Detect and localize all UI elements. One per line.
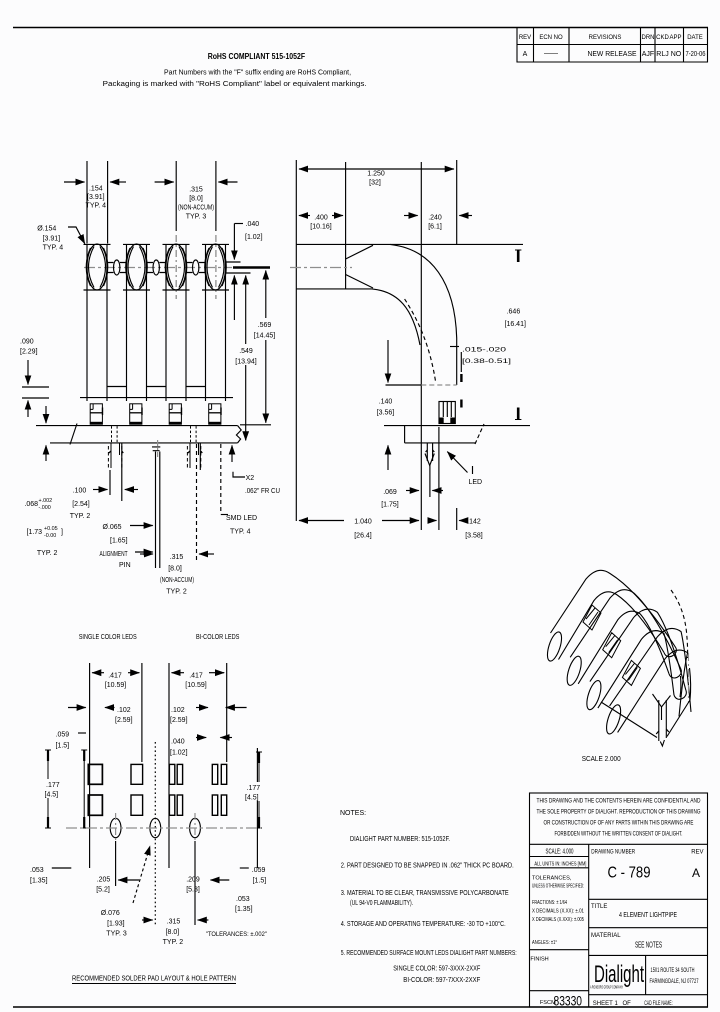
- svg-text:X2: X2: [246, 475, 255, 482]
- svg-text:SINGLE COLOR LEDS: SINGLE COLOR LEDS: [79, 634, 137, 641]
- svg-text:SHEET: SHEET: [593, 1001, 613, 1007]
- svg-text:Ø.076: Ø.076: [101, 910, 120, 917]
- svg-text:FRACTIONS: ± 1/64: FRACTIONS: ± 1/64: [532, 900, 567, 906]
- svg-text:1501 ROUTE 34 SOUTH: 1501 ROUTE 34 SOUTH: [651, 968, 695, 974]
- svg-text:-.000: -.000: [39, 505, 51, 511]
- svg-text:4 ELEMENT LIGHTPIPE: 4 ELEMENT LIGHTPIPE: [619, 912, 677, 919]
- svg-text:1.040: 1.040: [354, 519, 372, 526]
- svg-text:[1.73: [1.73: [27, 529, 43, 536]
- svg-text:[2.54]: [2.54]: [72, 501, 90, 508]
- svg-text:[1.65]: [1.65]: [110, 538, 128, 545]
- svg-text:[5.2]: [5.2]: [96, 887, 110, 894]
- svg-text:SCALE 2.000: SCALE 2.000: [582, 756, 621, 763]
- svg-text:FINISH: FINISH: [530, 957, 548, 963]
- svg-text:RLJ: RLJ: [656, 51, 668, 58]
- svg-text:TITLE: TITLE: [591, 904, 607, 910]
- svg-text:BI-COLOR LEDS: BI-COLOR LEDS: [196, 634, 240, 641]
- svg-text:[3.56]: [3.56]: [377, 410, 395, 417]
- svg-text:THE SOLE PROPERTY OF DIALIGHT.: THE SOLE PROPERTY OF DIALIGHT. REPRODUCT…: [537, 810, 701, 816]
- svg-text:TYP. 4: TYP. 4: [230, 529, 251, 536]
- svg-text:2. PART DESIGNED TO BE SNAPPED: 2. PART DESIGNED TO BE SNAPPED IN .062" …: [341, 863, 514, 870]
- svg-text:SCALE: 4.000: SCALE: 4.000: [546, 849, 574, 856]
- svg-text:TYP. 2: TYP. 2: [166, 589, 187, 596]
- svg-text:Ø.154: Ø.154: [37, 226, 56, 233]
- svg-text:[13.94]: [13.94]: [235, 359, 256, 366]
- svg-text:.053: .053: [30, 867, 44, 874]
- svg-text:FORBIDDEN WITHOUT THE WRITTEN: FORBIDDEN WITHOUT THE WRITTEN CONSENT OF…: [555, 832, 683, 838]
- svg-text:[1.02]: [1.02]: [170, 750, 188, 757]
- svg-text:5. RECOMMENDED SURFACE MOUNT L: 5. RECOMMENDED SURFACE MOUNT LEDS DIALIG…: [341, 950, 517, 957]
- svg-text:TYP. 3: TYP. 3: [186, 214, 207, 221]
- svg-text:"TOLERANCES: ±.002": "TOLERANCES: ±.002": [206, 931, 268, 938]
- svg-text:-0.00: -0.00: [44, 533, 56, 539]
- svg-text:.090: .090: [20, 339, 34, 346]
- svg-text:[4.5]: [4.5]: [245, 795, 259, 802]
- svg-text:Packaging is marked with "RoHS: Packaging is marked with "RoHS Compliant…: [103, 81, 367, 88]
- svg-text:(NON-ACCUM): (NON-ACCUM): [178, 205, 214, 212]
- svg-text:.102: .102: [171, 707, 185, 714]
- svg-text:REVISIONS: REVISIONS: [589, 35, 622, 41]
- svg-text:.059: .059: [56, 732, 70, 739]
- svg-text:TYP. 2: TYP. 2: [163, 939, 184, 946]
- svg-text:1.250: 1.250: [367, 171, 385, 178]
- svg-text:.417: .417: [189, 673, 203, 680]
- svg-text:RECOMMENDED SOLDER PAD LAYOUT: RECOMMENDED SOLDER PAD LAYOUT & HOLE PAT…: [72, 976, 236, 983]
- svg-text:.549: .549: [239, 348, 253, 355]
- svg-text:NEW RELEASE: NEW RELEASE: [588, 51, 637, 58]
- svg-text:[16.41]: [16.41]: [505, 321, 526, 328]
- svg-text:.240: .240: [428, 215, 442, 222]
- svg-text:+0.05: +0.05: [44, 526, 58, 532]
- svg-text:Ø.065: Ø.065: [103, 524, 122, 531]
- svg-text:TYP. 3: TYP. 3: [106, 931, 127, 938]
- svg-text:[1.35]: [1.35]: [235, 906, 253, 913]
- svg-text:[10.59]: [10.59]: [185, 682, 206, 689]
- svg-text:APP: APP: [669, 35, 681, 41]
- svg-text:[1.93]: [1.93]: [107, 921, 125, 928]
- svg-text:[14.45]: [14.45]: [254, 333, 275, 340]
- svg-text:.040: .040: [246, 221, 260, 228]
- svg-text:TYP. 2: TYP. 2: [37, 550, 58, 557]
- svg-text:CAD FILE NAME:: CAD FILE NAME:: [644, 1001, 673, 1007]
- svg-text:[6.1]: [6.1]: [428, 224, 442, 231]
- svg-text:C - 789: C - 789: [608, 865, 651, 882]
- svg-text:.177: .177: [247, 785, 261, 792]
- svg-text:3. MATERIAL TO BE CLEAR, TRANS: 3. MATERIAL TO BE CLEAR, TRANSMISSIVE PO…: [341, 890, 509, 897]
- svg-text:.040: .040: [171, 739, 185, 746]
- svg-text:.315: .315: [189, 187, 203, 194]
- svg-text:[1.02]: [1.02]: [245, 234, 263, 241]
- svg-text:[3.91]: [3.91]: [43, 236, 61, 243]
- svg-text:THIS DRAWING AND THE CONTENTS: THIS DRAWING AND THE CONTENTS HEREIN ARE…: [537, 799, 702, 805]
- svg-text:A: A: [523, 51, 528, 58]
- svg-text:AJF: AJF: [642, 51, 654, 58]
- svg-text:NOTES:: NOTES:: [340, 810, 366, 817]
- svg-text:MATERIAL: MATERIAL: [591, 933, 621, 939]
- svg-text:.315: .315: [170, 554, 184, 561]
- svg-text:TYP. 4: TYP. 4: [86, 203, 107, 210]
- svg-text:TOLERANCES,: TOLERANCES,: [532, 876, 572, 882]
- svg-text:DIALIGHT PART NUMBER: 515-1052: DIALIGHT PART NUMBER: 515-1052F.: [350, 836, 450, 843]
- svg-text:.062" FR CU: .062" FR CU: [245, 488, 280, 495]
- svg-text:[3.58]: [3.58]: [465, 533, 483, 540]
- svg-text:UNLESS OTHERWISE SPECIFIED:: UNLESS OTHERWISE SPECIFIED:: [532, 884, 584, 890]
- svg-text:PIN: PIN: [119, 562, 131, 569]
- svg-text:.646: .646: [507, 309, 521, 316]
- svg-text:RoHS COMPLIANT 515-1052F: RoHS COMPLIANT 515-1052F: [208, 51, 305, 61]
- svg-text:X DECIMALS (X.XXX): ±.005: X DECIMALS (X.XXX): ±.005: [532, 917, 584, 923]
- svg-text:.209: .209: [186, 877, 200, 884]
- svg-text:REV: REV: [691, 849, 703, 855]
- svg-text:.059: .059: [252, 867, 266, 874]
- svg-text:7-20-06: 7-20-06: [686, 51, 706, 58]
- svg-text:A: A: [692, 866, 700, 880]
- svg-text:+.002: +.002: [39, 498, 53, 504]
- svg-text:X DECIMALS (X.XX): ±.01: X DECIMALS (X.XX): ±.01: [532, 909, 584, 915]
- svg-text:[1.5]: [1.5]: [253, 878, 267, 885]
- svg-text:OF: OF: [623, 1001, 632, 1007]
- svg-text:.400: .400: [314, 215, 328, 222]
- svg-text:]: ]: [61, 529, 63, 536]
- svg-text:.315: .315: [167, 919, 181, 926]
- svg-text:.102: .102: [117, 707, 131, 714]
- svg-text:ANGLES: ±1°: ANGLES: ±1°: [532, 940, 557, 946]
- svg-text:[3.91]: [3.91]: [87, 194, 105, 201]
- svg-text:83330: 83330: [554, 993, 583, 1009]
- svg-text:OR CONSTRUCTION OF OF ANY PART: OR CONSTRUCTION OF OF ANY PARTS WITHIN T…: [544, 821, 694, 827]
- svg-text:[1.35]: [1.35]: [30, 878, 48, 885]
- svg-text:TYP. 2: TYP. 2: [70, 513, 91, 520]
- svg-text:ECN NO: ECN NO: [539, 35, 563, 41]
- svg-text:.569: .569: [258, 322, 272, 329]
- svg-text:[10.16]: [10.16]: [310, 224, 331, 231]
- svg-text:.142: .142: [467, 519, 481, 526]
- svg-text:[2.59]: [2.59]: [115, 717, 133, 724]
- svg-text:.069: .069: [383, 489, 397, 496]
- svg-text:ALIGNMENT: ALIGNMENT: [100, 551, 128, 558]
- svg-text:BI-COLOR: 597-7XXX-2XXF: BI-COLOR: 597-7XXX-2XXF: [403, 977, 480, 984]
- svg-text:.100: .100: [73, 488, 87, 495]
- svg-text:[5.3]: [5.3]: [186, 887, 200, 894]
- svg-text:[32]: [32]: [369, 180, 381, 187]
- svg-text:DRAWING NUMBER: DRAWING NUMBER: [591, 850, 636, 856]
- svg-text:[4.5]: [4.5]: [45, 792, 59, 799]
- svg-text:DATE: DATE: [687, 35, 703, 41]
- svg-text:A ROXBORO GROUP COMPANY: A ROXBORO GROUP COMPANY: [590, 985, 623, 990]
- svg-text:REV: REV: [519, 35, 531, 41]
- svg-text:.015-.020: .015-.020: [462, 347, 507, 354]
- svg-text:SINGLE COLOR: 597-3XXX-2XXF: SINGLE COLOR: 597-3XXX-2XXF: [393, 966, 480, 973]
- svg-text:(NON-ACCUM): (NON-ACCUM): [160, 577, 194, 584]
- svg-text:[8.0]: [8.0]: [166, 929, 180, 936]
- svg-text:Part Numbers with the "F" suff: Part Numbers with the "F" suffix ending …: [164, 70, 351, 77]
- svg-text:.417: .417: [108, 673, 122, 680]
- svg-text:.053: .053: [236, 896, 250, 903]
- svg-text:.140: .140: [379, 399, 393, 406]
- svg-text:[26.4]: [26.4]: [354, 533, 372, 540]
- svg-text:NO: NO: [671, 51, 682, 58]
- svg-text:[2.29]: [2.29]: [20, 349, 38, 356]
- svg-text:.177: .177: [46, 782, 60, 789]
- svg-text:[1.5]: [1.5]: [56, 743, 70, 750]
- svg-text:[0.38-0.51]: [0.38-0.51]: [462, 358, 511, 365]
- svg-text:(UL 94-V0 FLAMMABILITY).: (UL 94-V0 FLAMMABILITY).: [350, 900, 413, 907]
- svg-text:[8.0]: [8.0]: [189, 196, 203, 203]
- svg-text:SMD LED: SMD LED: [226, 515, 257, 522]
- svg-text:TYP. 4: TYP. 4: [43, 245, 64, 252]
- svg-text:[8.0]: [8.0]: [168, 566, 182, 573]
- svg-text:——: ——: [544, 50, 558, 57]
- svg-text:DRN: DRN: [642, 35, 655, 41]
- svg-text:.205: .205: [97, 877, 111, 884]
- svg-text:LED: LED: [469, 479, 483, 486]
- svg-text:SEE NOTES: SEE NOTES: [635, 940, 662, 950]
- svg-text:ALL UNITS IN: INCHES [MM]: ALL UNITS IN: INCHES [MM]: [534, 861, 586, 867]
- svg-text:FARMINGDALE, NJ 07727: FARMINGDALE, NJ 07727: [650, 979, 699, 985]
- svg-text:CKD: CKD: [656, 35, 669, 41]
- svg-text:[10.59]: [10.59]: [105, 682, 126, 689]
- svg-text:[1.75]: [1.75]: [381, 502, 399, 509]
- svg-text:[2.59]: [2.59]: [170, 717, 188, 724]
- svg-text:4. STORAGE AND OPERATING TEMPE: 4. STORAGE AND OPERATING TEMPERATURE: -3…: [341, 920, 506, 928]
- svg-text:.068: .068: [24, 501, 38, 508]
- svg-text:.154: .154: [89, 186, 103, 193]
